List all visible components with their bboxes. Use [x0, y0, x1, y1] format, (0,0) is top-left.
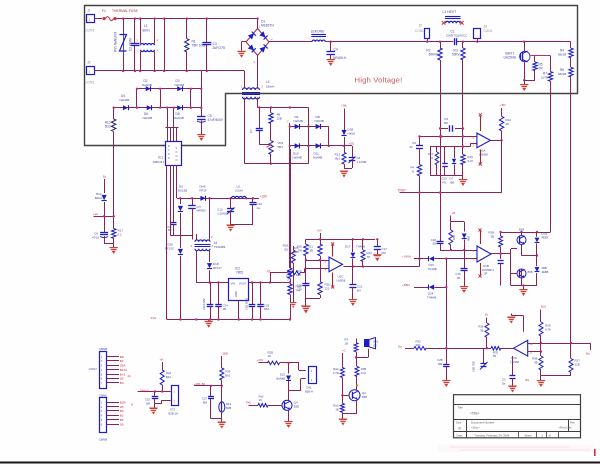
svg-text:NaN4B: NaN4B — [315, 119, 324, 123]
svg-text:CBNB: CBNB — [99, 347, 107, 351]
svg-text:C15: C15 — [442, 177, 448, 181]
svg-text:4EBB: 4EBB — [542, 270, 549, 274]
svg-text:+B: +B — [160, 358, 164, 362]
svg-text:SMP211: SMP211 — [153, 160, 165, 164]
svg-text:LM358: LM358 — [337, 279, 346, 283]
svg-text:1K: 1K — [259, 398, 263, 402]
svg-text:C20A 1B2: C20A 1B2 — [202, 298, 206, 310]
svg-text:50KV8: 50KV8 — [429, 53, 439, 57]
svg-text:NaNd: NaNd — [348, 132, 356, 136]
svg-text:B2B-H: B2B-H — [305, 390, 313, 394]
svg-text:B21: B21 — [166, 375, 172, 379]
svg-text:GND: GND — [234, 291, 238, 297]
svg-text:24G: 24G — [151, 316, 157, 320]
svg-text:2C: 2C — [128, 374, 131, 378]
svg-text:CBNB: CBNB — [99, 438, 107, 442]
svg-text:12B: 12B — [277, 117, 282, 121]
svg-text:2K: 2K — [506, 122, 510, 126]
svg-text:B1: B1 — [457, 276, 461, 280]
svg-text:5B1: 5B1 — [278, 145, 284, 149]
svg-text:223: 223 — [325, 287, 330, 291]
svg-text:B2B-1H: B2B-1H — [169, 411, 178, 415]
svg-text:TRN4B3: TRN4B3 — [214, 245, 226, 249]
svg-text:62: 62 — [410, 145, 414, 149]
svg-text:GT2: GT2 — [170, 407, 176, 411]
svg-text:Date:: Date: — [457, 434, 464, 438]
svg-text:BUL5B: BUL5B — [178, 189, 187, 193]
svg-text:V: V — [176, 146, 178, 150]
svg-text:B2A2: B2A2 — [120, 368, 128, 372]
svg-text:TRST: TRST — [398, 188, 407, 192]
svg-text:5a: 5a — [502, 381, 506, 385]
svg-text:B21: B21 — [374, 340, 379, 344]
svg-text:1C: 1C — [268, 354, 272, 358]
svg-text:KBZ6TH: KBZ6TH — [261, 24, 274, 28]
svg-text:Tuesday, February 24, 2004: Tuesday, February 24, 2004 — [475, 434, 510, 438]
svg-text:3B: 3B — [480, 329, 484, 333]
svg-text:D7: D7 — [450, 177, 454, 181]
svg-text:THERMAL FUSE: THERMAL FUSE — [112, 9, 139, 13]
svg-text:1C2: 1C2 — [361, 371, 367, 375]
svg-text:B2: B2 — [284, 248, 288, 252]
svg-text:+24VA: +24VA — [402, 254, 411, 258]
svg-text:NaN4B: NaN4B — [174, 116, 184, 120]
svg-text:5.1K: 5.1K — [468, 159, 474, 163]
svg-text:<Title>: <Title> — [470, 411, 480, 415]
svg-text:2P: 2P — [484, 272, 488, 276]
svg-text:CWNT/220VCC: CWNT/220VCC — [446, 34, 468, 38]
svg-text:BF13C: BF13C — [165, 247, 174, 251]
svg-text:C: C — [176, 150, 178, 154]
svg-text:2B: 2B — [120, 422, 124, 426]
svg-text:NaN4B: NaN4B — [142, 83, 152, 87]
svg-text:B2: B2 — [433, 242, 437, 246]
svg-text:1.1(A)52: 1.1(A)52 — [217, 212, 228, 216]
svg-text:Ge: Ge — [257, 206, 261, 210]
svg-text:5M: 5M — [146, 401, 151, 405]
svg-text:B+5: B+5 — [120, 372, 126, 376]
svg-text:TH4HB: TH4HB — [427, 296, 436, 300]
svg-text:4EBX: 4EBX — [542, 236, 549, 240]
svg-text:Br: Br — [103, 175, 106, 179]
svg-text:CBN2: CBN2 — [99, 393, 107, 397]
svg-text:NaN4B: NaN4B — [293, 155, 302, 159]
svg-text:B2: B2 — [444, 121, 448, 125]
svg-text:B2: B2 — [120, 359, 124, 363]
svg-text:GAZ6HG: GAZ6HG — [504, 56, 517, 60]
svg-text:3B: 3B — [309, 249, 313, 253]
svg-text:5D3: 5D3 — [105, 125, 111, 129]
svg-text:+C: +C — [342, 349, 346, 353]
svg-text:L1: L1 — [144, 24, 148, 28]
svg-text:CON1: CON1 — [484, 29, 493, 33]
svg-text:B2: B2 — [374, 343, 378, 347]
svg-text:1.1A5Br: 1.1A5Br — [357, 160, 367, 164]
svg-text:B21: B21 — [541, 305, 547, 309]
svg-text:Ba: Ba — [586, 352, 590, 356]
svg-text:TH4HB: TH4HB — [356, 244, 365, 248]
svg-text:CH1: CH1 — [306, 386, 312, 390]
svg-text:B61: B61 — [225, 374, 231, 378]
svg-text:55: 55 — [493, 354, 497, 358]
svg-text:+5BD: +5BD — [402, 283, 410, 287]
svg-text:4BB: 4BB — [467, 236, 471, 241]
svg-text:CON7: CON7 — [89, 367, 98, 371]
svg-text:C6: C6 — [412, 141, 416, 145]
svg-text:4.7R: 4.7R — [333, 371, 339, 375]
svg-text:CON1: CON1 — [415, 29, 424, 33]
svg-text:RV1 NaNUKM: RV1 NaNUKM — [114, 32, 118, 52]
svg-text:47uF/400V: 47uF/400V — [208, 118, 224, 122]
svg-text:B2B: B2B — [120, 401, 126, 405]
svg-text:BaNaB: BaNaB — [276, 377, 285, 381]
svg-text:4.7K: 4.7K — [545, 328, 551, 332]
svg-text:D1B: D1B — [542, 232, 548, 236]
svg-text:1W: 1W — [298, 249, 303, 253]
svg-text:NR400-K: NR400-K — [333, 56, 347, 60]
svg-text:L4: L4 — [266, 80, 270, 84]
svg-text:RF1F: RF1F — [200, 189, 207, 193]
svg-text:N: N — [412, 170, 414, 174]
svg-text:2uF/275: 2uF/275 — [213, 46, 225, 50]
svg-text:High Voltage!: High Voltage! — [355, 76, 403, 85]
svg-text:NaN4B: NaN4B — [313, 155, 322, 159]
svg-text:1B: 1B — [223, 307, 227, 311]
svg-text:7805: 7805 — [236, 271, 243, 275]
svg-text:<RevCode: <RevCode — [559, 426, 573, 430]
svg-text:C7: C7 — [249, 129, 253, 133]
svg-text:D22: D22 — [280, 373, 286, 377]
svg-text:43: 43 — [430, 156, 434, 160]
svg-text:L3 HEXT: L3 HEXT — [443, 10, 457, 14]
svg-text:O: O — [176, 158, 178, 162]
svg-text:Q4: Q4 — [362, 391, 366, 395]
svg-text:B2B: B2B — [226, 406, 231, 410]
svg-text:+BV: +BV — [500, 103, 506, 107]
svg-text:NaN4B: NaN4B — [294, 119, 303, 123]
svg-text:+3B: +3B — [341, 104, 346, 108]
svg-text:(9)1: (9)1 — [335, 157, 341, 161]
svg-text:5M: 5M — [382, 251, 387, 255]
svg-text:VOUT: VOUT — [239, 282, 247, 286]
svg-text:1B: 1B — [345, 342, 349, 346]
svg-text:NaN4B: NaN4B — [175, 83, 185, 87]
svg-text:P42: P42 — [246, 400, 251, 404]
svg-text:1B: 1B — [530, 342, 533, 346]
svg-text:3B: 3B — [534, 361, 538, 365]
svg-text:B5B: B5B — [528, 270, 533, 274]
svg-text:6B/1B: 6B/1B — [558, 53, 566, 57]
svg-text:+18V: +18V — [260, 195, 268, 199]
svg-text:WP85V: WP85V — [197, 209, 207, 213]
svg-text:1BmH: 1BmH — [266, 85, 274, 89]
svg-text:50KV: 50KV — [452, 53, 461, 57]
svg-text:471: 471 — [442, 181, 447, 185]
svg-text:8mH: 8mH — [143, 29, 151, 33]
svg-text:1BB: 1BB — [452, 235, 456, 240]
svg-text:C4: C4 — [334, 48, 338, 52]
svg-text:Title: Title — [458, 406, 464, 410]
svg-text:B3B: B3B — [362, 395, 367, 399]
svg-text:TH4HB: TH4HB — [428, 267, 437, 271]
svg-text:Sheet: Sheet — [525, 434, 532, 438]
svg-text:5B: 5B — [491, 235, 495, 239]
svg-text:Q4: Q4 — [294, 401, 298, 405]
svg-text:B5: B5 — [120, 418, 124, 422]
svg-text:Br: Br — [485, 313, 488, 317]
svg-text:BV: BV — [357, 289, 361, 293]
svg-text:BaNd: BaNd — [95, 196, 103, 200]
svg-text:LM358: LM358 — [511, 360, 520, 364]
svg-text:CON1: CON1 — [85, 81, 94, 85]
svg-text:BB: BB — [451, 181, 455, 185]
svg-text:+24V: +24V — [257, 358, 264, 362]
svg-text:D17: D17 — [345, 244, 351, 248]
svg-text:of: of — [549, 434, 551, 438]
svg-text:Rev: Rev — [570, 420, 575, 424]
svg-text:+aC: +aC — [93, 212, 98, 216]
svg-text:NaN4B: NaN4B — [143, 116, 153, 120]
svg-text:47/16: 47/16 — [92, 236, 99, 240]
svg-text:107B: 107B — [541, 76, 548, 80]
svg-text:C2 223M: C2 223M — [129, 38, 133, 51]
svg-text:B: B — [131, 403, 133, 407]
svg-text:6B/1B: 6B/1B — [558, 72, 566, 76]
svg-text:CON1: CON1 — [85, 29, 94, 33]
svg-text:BA: BA — [120, 409, 124, 413]
svg-text:NaN4B: NaN4B — [120, 98, 130, 102]
svg-text:B2B: B2B — [519, 228, 524, 232]
svg-text:RF127: RF127 — [213, 266, 222, 270]
svg-text:VIN: VIN — [231, 282, 236, 286]
svg-text:+5D: +5D — [349, 142, 355, 146]
svg-text:+5: +5 — [267, 270, 271, 274]
svg-text:1B: 1B — [335, 408, 339, 412]
svg-text:F1: F1 — [102, 9, 106, 13]
svg-text:G: G — [176, 154, 178, 158]
svg-text:+B: +B — [452, 211, 456, 215]
svg-text:+5V: +5V — [317, 229, 322, 233]
svg-text:LEKONE: LEKONE — [311, 30, 325, 34]
svg-text:J2: J2 — [87, 61, 91, 65]
svg-text:TP: TP — [367, 255, 371, 259]
svg-text:5.1: 5.1 — [118, 233, 123, 237]
svg-text:J1: J1 — [87, 9, 91, 13]
svg-text:3D1: 3D1 — [416, 343, 422, 347]
svg-text:Ba: Ba — [526, 378, 530, 382]
svg-text:2BB: 2BB — [223, 352, 228, 356]
svg-text:C3B 7BB: C3B 7BB — [472, 361, 476, 372]
svg-text:J3: J3 — [484, 25, 488, 29]
svg-text:Da: Da — [398, 344, 402, 348]
svg-text:Document Number: Document Number — [471, 420, 495, 424]
svg-text:C2B 1BB2: C2B 1BB2 — [245, 297, 249, 310]
svg-text:1B4: 1B4 — [438, 362, 443, 366]
svg-text:7.4: 7.4 — [287, 278, 291, 282]
svg-text:Size: Size — [456, 421, 462, 425]
svg-text:12B: 12B — [575, 363, 580, 367]
svg-text:2BB: 2BB — [542, 266, 547, 270]
svg-text:<Doc>: <Doc> — [471, 426, 480, 430]
svg-text:3.5uH: 3.5uH — [235, 189, 243, 193]
svg-text:B2B: B2B — [294, 405, 299, 409]
svg-text:1BA: 1BA — [264, 307, 269, 311]
svg-text:BM: BM — [203, 400, 208, 404]
svg-text:J2: J2 — [419, 24, 423, 28]
svg-text:22K: 22K — [297, 288, 302, 292]
svg-text:B2: B2 — [168, 228, 172, 232]
